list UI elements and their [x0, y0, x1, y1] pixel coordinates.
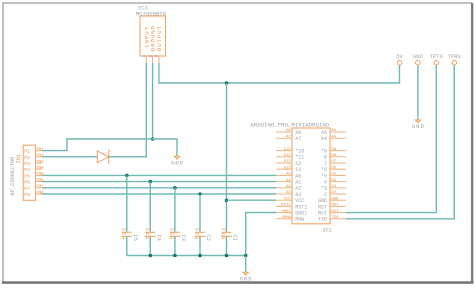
svg-text:RXI: RXI	[331, 210, 338, 214]
IC1 pin D2 (right) stub	[330, 193, 346, 195]
IC2 pin 3 stub	[158, 56, 160, 63]
svg-text:RST1: RST1	[295, 204, 307, 210]
IC1 pin D11 (left) stub	[276, 156, 292, 158]
svg-text:P3: P3	[24, 161, 30, 167]
wire TPRX to IC1 TXO	[346, 65, 454, 219]
IC1 pin RXI (right) stub	[330, 212, 346, 214]
IC1 ARDUINO_PRO_MINIADRUINO body	[292, 128, 330, 224]
wire ground rail	[127, 255, 246, 257]
wire VCC to IC1 VCC pin	[227, 199, 277, 201]
wire IC1 GND1 down to rail	[246, 213, 276, 256]
svg-text:MC7805BTG: MC7805BTG	[136, 10, 167, 17]
svg-text:D8: D8	[331, 154, 336, 158]
junction GND net at IC2 ground	[151, 137, 155, 141]
svg-text:IO1: IO1	[16, 154, 22, 164]
svg-text:A2: A2	[286, 185, 291, 189]
junction VCC wire to IC1	[225, 198, 229, 202]
svg-text:RXI: RXI	[318, 211, 327, 217]
svg-text:C5: C5	[132, 235, 138, 241]
svg-text:GND1: GND1	[295, 211, 307, 217]
svg-text:C2: C2	[205, 235, 211, 241]
junction C2 tap	[198, 192, 202, 196]
svg-text:A2: A2	[295, 186, 301, 192]
svg-text:A7: A7	[295, 136, 301, 142]
svg-text:A6: A6	[286, 129, 291, 133]
svg-text:A4: A4	[321, 136, 327, 142]
IC1 pin D4 (right) stub	[330, 181, 346, 183]
IC1 pin D6 (right) stub	[330, 168, 346, 170]
svg-text:GND1: GND1	[281, 210, 291, 214]
test point TPRX pad	[452, 60, 457, 65]
svg-text:RST: RST	[331, 204, 339, 208]
svg-text:GND: GND	[412, 123, 425, 130]
wire net P5 to IC1 A0	[42, 174, 276, 176]
wire GND test point down	[417, 65, 419, 119]
svg-text:GND: GND	[331, 197, 339, 201]
IC1 pin RST1 (left) stub	[276, 205, 292, 207]
svg-text:RAW: RAW	[295, 217, 304, 223]
svg-text:A7: A7	[286, 135, 291, 139]
svg-text:2: 2	[147, 55, 153, 58]
svg-text:VRAW: VRAW	[281, 216, 291, 220]
svg-text:P2: P2	[24, 155, 30, 161]
svg-text:RST1: RST1	[281, 204, 291, 208]
connector IO1 pin P7 stub	[36, 187, 43, 189]
svg-text:A3: A3	[295, 192, 301, 198]
svg-text:P$4: P$4	[37, 166, 45, 171]
svg-text:*5: *5	[321, 173, 327, 179]
svg-text:GND: GND	[318, 198, 327, 204]
svg-text:VCC: VCC	[284, 197, 292, 201]
wire P2 to diode anode	[42, 156, 97, 158]
connector IO1 pin P4 stub	[36, 168, 43, 170]
svg-text:P$2: P$2	[37, 153, 45, 158]
svg-text:22u: 22u	[168, 228, 174, 241]
connector IO1 pin P6 stub	[36, 181, 43, 183]
svg-text:22u: 22u	[120, 228, 126, 241]
svg-text:D6: D6	[331, 166, 336, 170]
svg-text:3: 3	[154, 55, 160, 58]
IC1 pin A4 (right) stub	[330, 137, 346, 139]
frame bottom shadow edge	[2, 281, 474, 283]
svg-text:C4: C4	[156, 235, 162, 241]
svg-text:D3: D3	[331, 185, 336, 189]
IC1 pin A1 (left) stub	[276, 181, 292, 183]
svg-text:1: 1	[141, 55, 147, 58]
svg-text:5V: 5V	[396, 54, 403, 60]
svg-text:P$1: P$1	[37, 147, 45, 152]
IC1 pin D3 (right) stub	[330, 187, 346, 189]
junction C5 tap	[125, 174, 129, 178]
junction rail at C2	[198, 254, 202, 258]
svg-text:ARDUINO_PRO_MINIADRUINO: ARDUINO_PRO_MINIADRUINO	[251, 121, 330, 128]
svg-text:TXO: TXO	[331, 216, 339, 220]
svg-text:22u: 22u	[144, 228, 150, 241]
capacitor C3	[170, 231, 179, 233]
wire IC2 GROUND pin down	[152, 63, 154, 139]
svg-text:12: 12	[295, 161, 301, 167]
voltage regulator IC2 MC7805BTG body	[140, 16, 166, 56]
wire net P7 to IC1 A2	[42, 187, 276, 189]
svg-text:TPRX: TPRX	[448, 54, 462, 60]
wire C5 drop	[126, 175, 128, 231]
svg-text:P6: P6	[24, 180, 30, 186]
IC1 pin GND (right) stub	[330, 199, 346, 201]
svg-text:A4: A4	[331, 135, 336, 139]
IC1 pin D7 (right) stub	[330, 162, 346, 164]
svg-text:OUTPUT: OUTPUT	[156, 25, 163, 51]
wire C3 drop	[174, 188, 176, 232]
svg-text:*11: *11	[295, 155, 304, 161]
svg-text:4: 4	[324, 180, 327, 186]
svg-text:GND: GND	[171, 159, 184, 166]
svg-text:D7: D7	[331, 160, 336, 164]
wire P1 to GND symbol	[42, 139, 177, 156]
wire net P6 to IC1 A1	[42, 181, 276, 183]
wire VCC vertical drop to C1	[226, 83, 228, 232]
frame right shadow edge	[471, 3, 473, 283]
svg-text:8: 8	[324, 155, 327, 161]
ground symbol near regulator	[174, 156, 180, 159]
svg-text:22u: 22u	[220, 228, 226, 241]
svg-text:C3: C3	[180, 235, 186, 241]
svg-text:*6: *6	[321, 167, 327, 173]
connector IO1 pin P2 stub	[36, 156, 43, 158]
wire C4 drop	[149, 182, 151, 232]
wire TPTX to IC1 RXI	[346, 65, 436, 212]
diode D1	[97, 151, 108, 163]
svg-text:TXO: TXO	[318, 217, 327, 223]
svg-text:GND: GND	[413, 54, 423, 60]
svg-text:P4: P4	[24, 167, 30, 173]
ground symbol below GND test point	[415, 120, 421, 123]
svg-text:A1: A1	[286, 179, 291, 183]
svg-text:A0: A0	[286, 173, 291, 177]
wire diode cathode to IC2 INPUT	[109, 63, 147, 157]
IC2 pin 2 stub	[152, 56, 154, 63]
svg-text:GND: GND	[240, 275, 253, 282]
IC1 pin D13 (left) stub	[276, 168, 292, 170]
test point TPTX pad	[434, 60, 439, 65]
svg-text:22u: 22u	[194, 228, 200, 241]
svg-text:A1: A1	[295, 180, 301, 186]
svg-text:TPTX: TPTX	[430, 54, 444, 60]
svg-text:P$3: P$3	[37, 159, 45, 164]
IC1 pin A6 (left) stub	[276, 131, 292, 133]
junction 5V net / VCC drop	[225, 81, 229, 85]
connector IO1 BP_CONNECTOR body	[23, 145, 35, 200]
svg-text:P8: P8	[24, 192, 30, 198]
svg-text:D2: D2	[331, 191, 336, 195]
connector IO1 pin P1 stub	[36, 150, 43, 152]
connector IO1 pin P5 stub	[36, 174, 43, 176]
svg-text:D5: D5	[331, 173, 336, 177]
svg-text:2: 2	[324, 192, 327, 198]
IC1 pin TXO (right) stub	[330, 218, 346, 220]
svg-text:D12: D12	[284, 160, 292, 164]
svg-text:D10: D10	[284, 148, 292, 152]
svg-text:*10: *10	[295, 149, 304, 155]
IC1 pin D12 (left) stub	[276, 162, 292, 164]
capacitor C5	[122, 231, 131, 233]
connector IO1 pin P3 stub	[36, 162, 43, 164]
svg-text:D13: D13	[284, 166, 292, 170]
IC1 pin GND1 (left) stub	[276, 212, 292, 214]
junction rail at C4	[149, 254, 153, 258]
junction rail at C3	[173, 254, 177, 258]
IC1 pin A7 (left) stub	[276, 137, 292, 139]
ground symbol bottom	[243, 272, 249, 275]
test point GND pad	[416, 60, 421, 65]
capacitor C1	[222, 231, 231, 233]
svg-text:A5: A5	[331, 129, 336, 133]
svg-text:A0: A0	[295, 173, 301, 179]
wire net P8 to IC1 A3	[42, 193, 276, 195]
svg-text:A6: A6	[295, 130, 301, 136]
IC1 pin VCC (left) stub	[276, 199, 292, 201]
svg-text:D4: D4	[331, 179, 336, 183]
IC1 pin A3 (left) stub	[276, 193, 292, 195]
capacitor C4	[146, 231, 155, 233]
svg-text:*3: *3	[321, 186, 327, 192]
IC1 pin D10 (left) stub	[276, 150, 292, 152]
svg-text:*9: *9	[321, 149, 327, 155]
wire rail to ground symbol	[245, 256, 247, 272]
svg-text:C1: C1	[232, 235, 238, 241]
svg-text:13: 13	[295, 167, 301, 173]
IC1 pin A0 (left) stub	[276, 174, 292, 176]
svg-text:VCC: VCC	[295, 198, 304, 204]
connector IO1 pin P8 stub	[36, 193, 43, 195]
svg-text:IC1: IC1	[322, 227, 333, 234]
test point 5V pad	[397, 60, 402, 65]
IC1 pin D8 (right) stub	[330, 156, 346, 158]
svg-text:D11: D11	[284, 154, 292, 158]
svg-text:RST: RST	[318, 204, 327, 210]
IC1 pin A2 (left) stub	[276, 187, 292, 189]
IC1 pin D9 (right) stub	[330, 150, 346, 152]
svg-text:D9: D9	[331, 148, 336, 152]
capacitor C2	[195, 231, 204, 233]
IC1 pin VRAW (left) stub	[276, 218, 292, 220]
wire 5V net: IC2 OUTPUT to 5V test point	[159, 63, 400, 83]
svg-text:P1: P1	[24, 149, 30, 155]
IC2 pin 1 stub	[145, 56, 147, 63]
svg-text:A5: A5	[321, 130, 327, 136]
IC1 pin RST (right) stub	[330, 205, 346, 207]
IC1 pin D5 (right) stub	[330, 174, 346, 176]
svg-text:A3: A3	[286, 191, 291, 195]
svg-text:7: 7	[324, 161, 327, 167]
svg-text:P7: P7	[24, 186, 30, 192]
wire C2 drop	[199, 194, 201, 232]
svg-text:P5: P5	[24, 173, 30, 179]
junction rail at C1	[225, 254, 229, 258]
junction C4 tap	[149, 180, 153, 184]
junction C3 tap	[173, 186, 177, 190]
IC1 pin A5 (right) stub	[330, 131, 346, 133]
junction rail to ground	[244, 254, 248, 258]
